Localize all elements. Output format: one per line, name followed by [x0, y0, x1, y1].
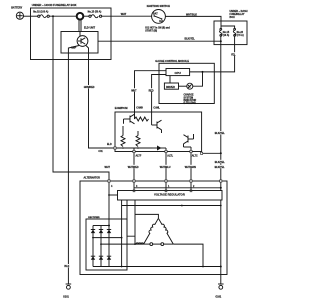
- wire VR ground rail: [122, 205, 221, 207]
- svg-text:ECM/PCM: ECM/PCM: [115, 106, 128, 110]
- wire FR drop into VR: [133, 182, 135, 191]
- node B+ stub junction: [108, 194, 110, 196]
- pin VR L: [165, 190, 167, 192]
- wire CPU to DRIVER: [169, 76, 171, 83]
- wire ALTL internal: [165, 148, 167, 152]
- resistor R2: [121, 136, 125, 147]
- svg-text:INDICATOR: INDICATOR: [184, 99, 197, 102]
- wire WHT/BLU L: [160, 153, 173, 181]
- svg-text:WHT: WHT: [121, 13, 127, 16]
- wire phase tap 2: [101, 243, 144, 245]
- svg-text:RECTIFIER: RECTIFIER: [88, 217, 100, 219]
- wire IG horizontal rail: [134, 187, 221, 189]
- gauge control module box: [155, 60, 214, 104]
- svg-text:ALTF: ALTF: [136, 155, 142, 158]
- resistor R3: [136, 136, 140, 147]
- wire ring to fuse No.15: [84, 15, 89, 17]
- wire ALTF internal: [133, 148, 135, 152]
- diode D6: [99, 256, 103, 260]
- svg-text:No.23: No.23: [237, 32, 244, 34]
- pin alternator IG: [220, 180, 222, 182]
- wire DRIVER to LED: [179, 85, 187, 87]
- node A junction: [52, 15, 54, 17]
- svg-text:ALTC: ALTC: [192, 155, 198, 158]
- svg-text:BOX: BOX: [230, 16, 236, 19]
- ECM/PCM box: [115, 106, 202, 151]
- svg-text:G101: G101: [63, 296, 70, 299]
- svg-text:BLK/YEL: BLK/YEL: [215, 162, 226, 164]
- fuse No.15 (10 A): [220, 28, 230, 37]
- node tap2 junction: [100, 243, 102, 245]
- node indicator junction: [202, 71, 204, 73]
- svg-text:UNDER – HOOD FUSE/RELAY BOX: UNDER – HOOD FUSE/RELAY BOX: [32, 3, 77, 7]
- wire ECM internal bottom bus: [115, 147, 153, 149]
- under-hood fuse/relay box: [31, 3, 112, 60]
- node BLK/YEL junction: [220, 40, 222, 42]
- wire B+ WHT battery feed down-left side: [53, 16, 109, 181]
- wire field feed: [127, 200, 135, 236]
- svg-text:CANL: CANL: [153, 107, 160, 110]
- under-dash fuse/relay box: [214, 10, 248, 45]
- wire under-dash internal bus: [221, 26, 235, 29]
- svg-text:ELD UNIT: ELD UNIT: [84, 27, 96, 30]
- rectifier bottom bus / ground bus: [93, 266, 221, 268]
- pin alternator FR: [133, 180, 138, 188]
- transistor Q3: [184, 134, 194, 147]
- svg-text:ELD: ELD: [107, 144, 112, 146]
- wire alternator ground: [220, 267, 222, 285]
- wire stator apex feed: [135, 214, 158, 218]
- wire L drop into VR: [165, 182, 167, 191]
- node ground bus junction: [220, 266, 222, 268]
- svg-text:No.32 (100 A): No.32 (100 A): [33, 11, 48, 14]
- wire IG drop into VR: [220, 182, 222, 191]
- label BLK/YEL near alternator: [214, 165, 227, 169]
- wire B+ into rectifier: [108, 182, 110, 225]
- pin alternator C: [190, 180, 195, 188]
- wire fuse No.32 to node A: [49, 15, 76, 17]
- node tap1 junction: [92, 237, 94, 239]
- wire CANH WHT gauge to ECM: [131, 71, 166, 112]
- pin ALTF: [133, 150, 142, 157]
- svg-text:CPU: CPU: [175, 71, 181, 75]
- svg-text:YEL: YEL: [231, 54, 236, 56]
- pin alternator B: [108, 180, 113, 188]
- node rail junction: [220, 205, 222, 207]
- wire CANH node: [134, 112, 136, 119]
- rectifier top bus: [93, 225, 109, 227]
- node IGP junction: [220, 152, 222, 154]
- svg-text:No.15 (50 A): No.15 (50 A): [88, 11, 102, 14]
- svg-text:GRN/RED: GRN/RED: [84, 87, 95, 89]
- svg-text:VOLTAGE REGULATOR: VOLTAGE REGULATOR: [154, 193, 185, 197]
- node B+ bus junction: [108, 225, 110, 227]
- svg-text:WHT/BLU: WHT/BLU: [160, 167, 171, 169]
- diode D5: [91, 256, 95, 260]
- ELD unit box: [61, 27, 98, 53]
- rectifier box: [86, 217, 127, 270]
- svg-text:WHT/GRN: WHT/GRN: [185, 167, 196, 169]
- svg-text:DRIVER: DRIVER: [166, 87, 175, 89]
- svg-text:CANH: CANH: [136, 107, 143, 110]
- diode D7: [107, 256, 111, 260]
- svg-text:No.15: No.15: [223, 32, 230, 34]
- svg-text:WHT: WHT: [105, 166, 111, 169]
- wire CANL node: [151, 112, 153, 125]
- svg-text:WHT/RED: WHT/RED: [128, 167, 139, 169]
- pin ALTL: [165, 150, 174, 157]
- svg-text:ALTERNATOR: ALTERNATOR: [84, 177, 101, 180]
- pin IGP square: [201, 152, 203, 154]
- CPU box U1: [166, 69, 190, 76]
- wire VR sense drop: [121, 200, 123, 267]
- diode D3: [99, 226, 103, 267]
- svg-text:BLK/YEL: BLK/YEL: [215, 167, 226, 169]
- wire CANL RED gauge to ECM: [148, 75, 166, 113]
- svg-text:START (III): START (III): [145, 30, 157, 33]
- svg-text:BLK/YEL: BLK/YEL: [185, 38, 196, 41]
- diode D4: [107, 226, 111, 267]
- ELD current sensor ring: [77, 13, 84, 32]
- node bus junction 1: [121, 266, 123, 268]
- wire GRN/RED ELD to ECM: [84, 53, 116, 148]
- svg-text:(7.5 A): (7.5 A): [237, 34, 244, 37]
- transistor Q2: [152, 120, 162, 133]
- svg-text:C31: C31: [98, 151, 103, 153]
- resistor R1: [135, 117, 149, 121]
- ignition switch: [145, 4, 170, 33]
- svg-text:IGNITION SWITCH: IGNITION SWITCH: [147, 4, 170, 8]
- wire BLK ELD ground lead: [64, 53, 72, 284]
- svg-text:CHARGE: CHARGE: [184, 94, 195, 97]
- pin VR C: [190, 190, 192, 192]
- node sense junction: [121, 237, 123, 239]
- pin VR FR: [133, 190, 135, 192]
- ground G101 right: [215, 284, 223, 299]
- diode D1: [153, 146, 167, 150]
- wire WHT/GRN C: [185, 153, 198, 181]
- alternator box: [80, 177, 227, 275]
- voltage regulator box: [118, 191, 223, 201]
- svg-text:WHT: WHT: [131, 90, 137, 92]
- pin alternator L: [165, 180, 170, 188]
- ground G101 left: [63, 284, 71, 299]
- fuse No.15 (50 A): [88, 11, 102, 18]
- svg-text:RED: RED: [149, 90, 154, 92]
- svg-text:BAT: BAT: [153, 13, 158, 16]
- wire LED to supply: [193, 72, 203, 86]
- wire BLK/YEL fuse No.15 to alternator IG: [215, 36, 227, 266]
- diode D2: [91, 226, 95, 267]
- node rotor junction: [134, 243, 136, 245]
- battery B1: [11, 7, 23, 20]
- ELD unit internal sensor circle: [71, 32, 88, 50]
- wire YEL fuse No.23 to gauge CPU: [190, 36, 239, 72]
- node R3 bus junction: [137, 147, 139, 149]
- wire WHT/RED FR: [128, 153, 141, 181]
- wire ALTC internal: [190, 147, 192, 152]
- node IG rail junction: [220, 187, 222, 189]
- wire battery to under-hood box: [24, 15, 39, 17]
- fuse No.23 (7.5 A): [233, 28, 244, 37]
- svg-text:GAUGE CONTROL MODULE: GAUGE CONTROL MODULE: [155, 60, 189, 63]
- stator delta winding: [136, 218, 173, 245]
- wire phase tap 1: [93, 237, 122, 239]
- svg-text:BLK/YEL: BLK/YEL: [215, 133, 226, 135]
- node bus junction 2: [202, 266, 204, 268]
- svg-text:WHT/BLK: WHT/BLK: [186, 13, 197, 16]
- charge system indicator LED: [184, 83, 197, 105]
- wire BLK/YEL bus ELD to under-dash: [98, 38, 221, 42]
- svg-text:BATTERY: BATTERY: [11, 7, 22, 10]
- svg-text:IG1 HOT in ON (II) and: IG1 HOT in ON (II) and: [145, 28, 170, 30]
- node R2 bus junction: [122, 147, 124, 149]
- wire rotor feed: [134, 200, 136, 244]
- svg-text:BLK: BLK: [64, 265, 69, 268]
- wire WHT/BLK ignition to under-dash box: [165, 13, 221, 28]
- wire WHT fuse No.15 to ignition switch: [102, 13, 152, 16]
- wire C drop into VR: [190, 182, 192, 191]
- pin ALTC: [190, 150, 198, 157]
- fuse No.32 (100 A): [33, 11, 49, 18]
- svg-text:ALTL: ALTL: [167, 155, 173, 158]
- svg-text:(10 A): (10 A): [223, 34, 230, 37]
- svg-text:SYSTEM: SYSTEM: [184, 97, 194, 99]
- svg-text:G101: G101: [215, 296, 222, 299]
- transistor Q1: [124, 114, 135, 124]
- DRIVER box: [164, 83, 178, 89]
- ELD internal leads: [68, 46, 79, 54]
- wire ECM power branch: [202, 152, 221, 154]
- pin ELD: [107, 144, 116, 149]
- svg-text:(LED) (Std): (LED) (Std): [184, 102, 196, 105]
- wire B+ to VR stub: [109, 194, 118, 196]
- wire phase tap 3: [173, 244, 203, 266]
